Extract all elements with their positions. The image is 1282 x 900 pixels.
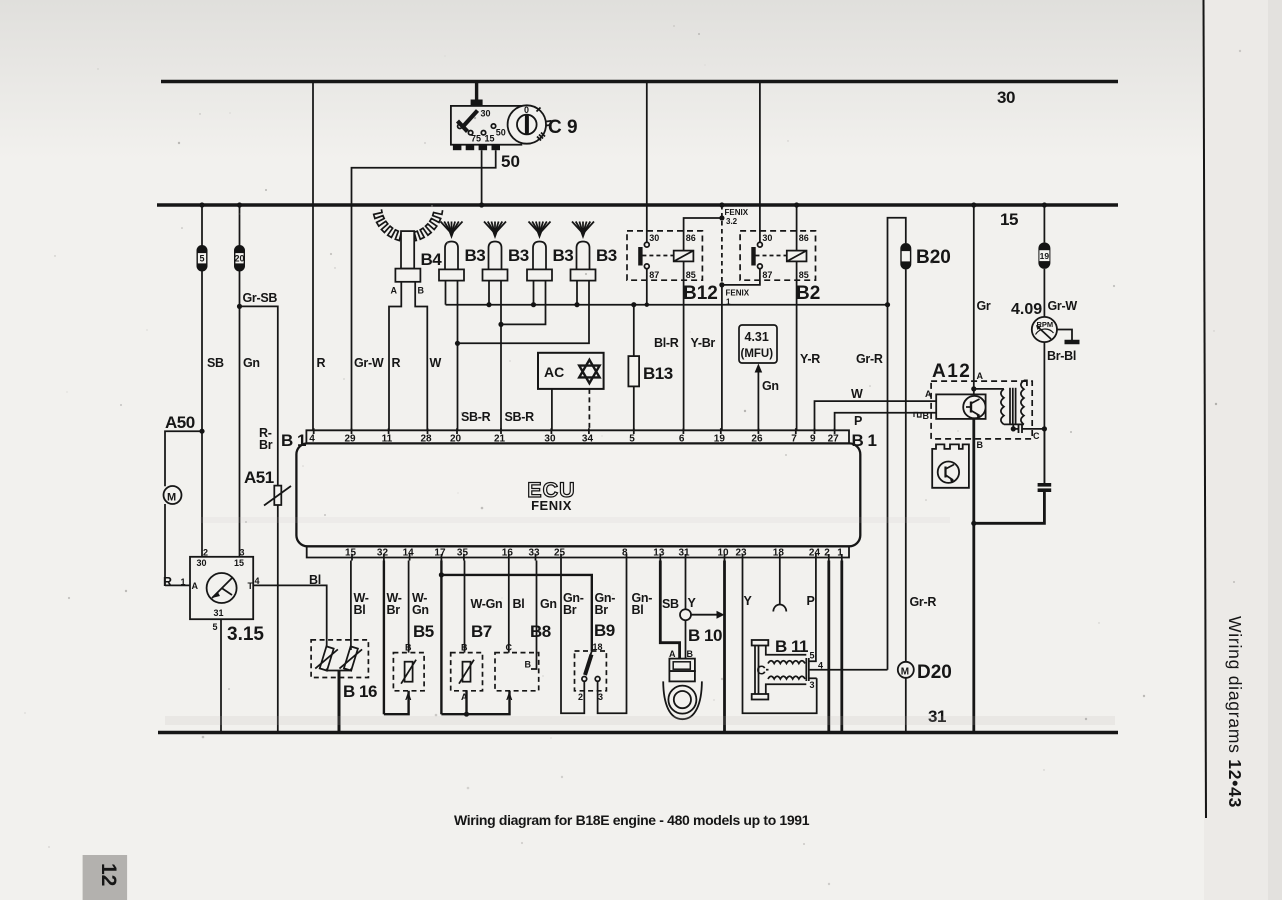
wire W: pin 9 to A12-A bbox=[815, 387, 937, 430]
A12 terminal B output (thick) bbox=[971, 418, 983, 732]
wire R: bus30 to ECU pin 4 bbox=[313, 82, 326, 431]
temp sensor B5 bbox=[384, 561, 434, 715]
idle/rpm sensor B4 bbox=[354, 231, 442, 430]
svg-text:B: B bbox=[923, 411, 930, 421]
svg-text:C: C bbox=[757, 663, 767, 678]
ground for tachometer (Br-Bl) bbox=[1047, 330, 1080, 364]
svg-text:B: B bbox=[418, 286, 425, 296]
wire B12-87 to injector rail bbox=[645, 269, 649, 307]
svg-text:Gr-W: Gr-W bbox=[354, 356, 384, 370]
svg-text:R: R bbox=[317, 356, 326, 370]
svg-text:18: 18 bbox=[773, 548, 785, 559]
resistor B13 bbox=[628, 305, 678, 431]
A12 capacitor and terminal C bbox=[1013, 425, 1044, 441]
air temp sensor B7 bbox=[451, 561, 503, 715]
ground wire pin 10 bbox=[723, 561, 726, 733]
svg-text:B20: B20 bbox=[916, 247, 951, 268]
distributor bbox=[932, 444, 969, 487]
throttle potentiometer B8 bbox=[495, 561, 557, 703]
pin 18 stub connector bbox=[773, 561, 786, 612]
svg-text:4: 4 bbox=[309, 434, 315, 445]
svg-text:R: R bbox=[163, 575, 172, 589]
svg-text:FENIX: FENIX bbox=[725, 208, 749, 217]
injector B3 #3 bbox=[527, 222, 573, 305]
svg-text:A: A bbox=[506, 692, 513, 702]
svg-text:26: 26 bbox=[751, 434, 763, 445]
fuse 19 line from bus15 bbox=[1011, 202, 1077, 318]
svg-text:14: 14 bbox=[403, 548, 415, 559]
lambda sensor B10 bbox=[660, 561, 724, 720]
wire Gr-SB branch to A51 bbox=[237, 291, 278, 733]
svg-text:B 1: B 1 bbox=[281, 431, 306, 450]
svg-text:3: 3 bbox=[598, 692, 603, 702]
svg-text:7: 7 bbox=[791, 434, 797, 445]
fuse B20 bbox=[900, 243, 951, 270]
wire B2-86 coil to bus15 bbox=[794, 202, 799, 250]
svg-text:B3: B3 bbox=[465, 246, 486, 265]
svg-text:B12: B12 bbox=[683, 283, 718, 304]
svg-text:Gr: Gr bbox=[977, 299, 991, 313]
wire: bus30 feed to C9 bbox=[471, 82, 483, 107]
svg-text:34: 34 bbox=[582, 434, 594, 445]
svg-text:25: 25 bbox=[554, 548, 566, 559]
svg-text:2: 2 bbox=[578, 692, 583, 702]
ignition switch C9 bbox=[451, 105, 578, 150]
svg-text:Br: Br bbox=[563, 603, 577, 617]
svg-text:30: 30 bbox=[997, 88, 1015, 107]
svg-text:B: B bbox=[687, 649, 694, 659]
svg-text:B3: B3 bbox=[596, 246, 617, 265]
svg-text:FENIX: FENIX bbox=[531, 498, 572, 513]
bus 31 bbox=[158, 707, 1118, 733]
svg-text:W: W bbox=[851, 387, 863, 401]
svg-text:30: 30 bbox=[762, 233, 772, 243]
svg-text:B 1: B 1 bbox=[852, 431, 877, 450]
svg-text:50: 50 bbox=[501, 152, 520, 171]
chapter tab 12 bbox=[83, 855, 128, 900]
svg-text:Bl: Bl bbox=[632, 603, 644, 617]
svg-text:5: 5 bbox=[810, 651, 815, 661]
svg-text:Gn: Gn bbox=[412, 603, 429, 617]
svg-text:86: 86 bbox=[799, 233, 809, 243]
injector B3 #4 bbox=[571, 222, 617, 305]
svg-text:9: 9 bbox=[810, 434, 816, 445]
wire: rail to B20/B11 feeder (Gr-R) bbox=[856, 218, 906, 670]
svg-text:A50: A50 bbox=[165, 413, 195, 432]
svg-text:23: 23 bbox=[736, 548, 748, 559]
suppression capacitor to ground bbox=[974, 429, 1051, 523]
wire bus30 to B12-30 bbox=[646, 82, 648, 243]
svg-text:Bl: Bl bbox=[309, 573, 321, 587]
ECU top pin row bbox=[309, 428, 839, 444]
svg-text:Br-Bl: Br-Bl bbox=[1047, 349, 1076, 363]
svg-text:30: 30 bbox=[197, 558, 207, 568]
bus 15 bbox=[157, 205, 1118, 229]
svg-text:B: B bbox=[525, 660, 532, 670]
svg-text:19: 19 bbox=[714, 434, 726, 445]
wire bus30 to B2-30 bbox=[759, 82, 761, 243]
wire B2-85 coil to ECU pin 7 (Y-R) bbox=[797, 261, 821, 430]
ECU bottom pin row bbox=[345, 548, 843, 561]
bus 30 bbox=[161, 82, 1118, 108]
svg-text:Y: Y bbox=[744, 594, 753, 608]
wire P: pin 27 to A12-B bbox=[835, 411, 937, 430]
svg-text:A: A bbox=[925, 389, 932, 399]
svg-text:B 10: B 10 bbox=[688, 626, 722, 645]
svg-text:B3: B3 bbox=[553, 246, 574, 265]
svg-text:3: 3 bbox=[810, 680, 815, 690]
relay B2 (fuel pump relay) bbox=[740, 231, 820, 304]
svg-text:Gr-R: Gr-R bbox=[910, 595, 937, 609]
wire B2-87 to FENIX 1 tap bbox=[722, 269, 760, 285]
svg-text:Y-Br: Y-Br bbox=[691, 336, 716, 350]
svg-text:5: 5 bbox=[213, 622, 218, 632]
wire: injector1+4 group to pin 20 bbox=[455, 305, 589, 431]
svg-text:A: A bbox=[461, 692, 468, 702]
svg-text:20: 20 bbox=[234, 254, 244, 264]
svg-text:15: 15 bbox=[485, 134, 495, 144]
idle air valve B11 bbox=[752, 637, 888, 700]
svg-text:87: 87 bbox=[762, 270, 772, 280]
fuel pump motor D20 bbox=[898, 662, 952, 733]
relay B12 (main/injection relay) bbox=[627, 231, 718, 304]
svg-text:B13: B13 bbox=[643, 364, 673, 383]
sensor A51 (resistance wire) bbox=[244, 468, 291, 506]
wire: injector2+3 group to pin 21 bbox=[498, 305, 545, 431]
svg-text:FENIX: FENIX bbox=[726, 289, 750, 298]
svg-text:1: 1 bbox=[181, 577, 186, 587]
svg-text:30: 30 bbox=[544, 434, 556, 445]
svg-text:10: 10 bbox=[718, 548, 730, 559]
svg-text:Gn: Gn bbox=[540, 597, 557, 611]
svg-text:8: 8 bbox=[622, 548, 628, 559]
svg-text:85: 85 bbox=[799, 270, 809, 280]
svg-text:24: 24 bbox=[809, 548, 821, 559]
coolant temp sensors B16 (dashed box, two thermistors) bbox=[311, 561, 377, 733]
svg-text:Gn: Gn bbox=[243, 356, 260, 370]
svg-text:4.09: 4.09 bbox=[1011, 301, 1042, 318]
svg-text:15: 15 bbox=[345, 548, 357, 559]
svg-text:W: W bbox=[430, 356, 442, 370]
svg-text:30: 30 bbox=[481, 109, 491, 119]
svg-text:C: C bbox=[506, 643, 513, 653]
wire Bl: 3.15 T to B16 bbox=[253, 573, 327, 649]
svg-text:Wiring diagrams 12•43: Wiring diagrams 12•43 bbox=[1225, 616, 1245, 808]
svg-text:B 16: B 16 bbox=[343, 682, 377, 701]
wire B12-86 coil to FENIX 3.2 tap bbox=[684, 215, 725, 250]
svg-text:87: 87 bbox=[649, 270, 659, 280]
svg-text:75: 75 bbox=[471, 134, 481, 144]
wire pin 23 to B11 terminal 3 (Y) bbox=[743, 561, 817, 714]
svg-text:3.15: 3.15 bbox=[227, 624, 264, 645]
svg-text:11: 11 bbox=[382, 434, 393, 445]
svg-text:B9: B9 bbox=[594, 621, 615, 640]
wire C9 terminal 15 to bus15 bbox=[479, 150, 484, 207]
svg-text:C: C bbox=[1033, 431, 1040, 441]
svg-text:5: 5 bbox=[199, 254, 204, 264]
svg-text:P: P bbox=[807, 594, 815, 608]
svg-text:(MFU): (MFU) bbox=[741, 348, 774, 360]
svg-text:SB-R: SB-R bbox=[461, 410, 491, 424]
svg-text:30: 30 bbox=[649, 233, 659, 243]
svg-text:28: 28 bbox=[421, 434, 433, 445]
ignition coil/power stage A12 bbox=[925, 361, 1032, 439]
page divider line bbox=[1204, 0, 1207, 818]
svg-text:P: P bbox=[854, 414, 862, 428]
svg-text:B3: B3 bbox=[508, 246, 529, 265]
svg-text:C 9: C 9 bbox=[548, 117, 578, 138]
svg-text:31: 31 bbox=[679, 548, 691, 559]
svg-text:D20: D20 bbox=[917, 662, 952, 683]
wire B12-85 coil to ECU pin 6 (Y-Br) bbox=[684, 261, 716, 430]
svg-text:SB: SB bbox=[662, 597, 679, 611]
svg-text:Y: Y bbox=[688, 596, 697, 610]
svg-text:Gr-SB: Gr-SB bbox=[243, 291, 278, 305]
svg-text:M: M bbox=[901, 667, 909, 678]
svg-text:1: 1 bbox=[726, 298, 731, 307]
svg-text:B2: B2 bbox=[796, 283, 820, 304]
ground rail from pin 17 bbox=[439, 561, 592, 717]
svg-text:31: 31 bbox=[214, 608, 224, 618]
svg-text:1: 1 bbox=[837, 548, 843, 559]
svg-text:Bl: Bl bbox=[513, 597, 525, 611]
svg-text:T: T bbox=[248, 581, 254, 591]
fuse 5 and SB wire bbox=[197, 202, 225, 556]
svg-text:16: 16 bbox=[502, 548, 514, 559]
injector B3 #2 bbox=[483, 222, 529, 305]
svg-text:SB: SB bbox=[207, 356, 224, 370]
AC compressor request box bbox=[538, 353, 604, 431]
svg-text:Gr-W: Gr-W bbox=[1048, 299, 1078, 313]
fuse 20 and Gn wire bbox=[234, 202, 260, 556]
svg-text:4.31: 4.31 bbox=[745, 330, 769, 344]
svg-text:AC: AC bbox=[544, 364, 564, 380]
svg-text:50: 50 bbox=[496, 128, 506, 138]
svg-text:15: 15 bbox=[234, 558, 244, 568]
injector supply rail bbox=[446, 302, 891, 307]
reference box 4.31 (MFU) bbox=[739, 325, 779, 430]
wire: gauge to coil terminal C junction bbox=[1042, 342, 1047, 483]
svg-text:A51: A51 bbox=[244, 468, 274, 487]
svg-text:3.2: 3.2 bbox=[726, 217, 738, 226]
svg-text:M: M bbox=[167, 492, 176, 504]
svg-text:86: 86 bbox=[686, 233, 696, 243]
svg-text:33: 33 bbox=[529, 548, 541, 559]
svg-text:Br: Br bbox=[259, 438, 273, 452]
injector B3 #1 bbox=[439, 222, 485, 305]
svg-text:4: 4 bbox=[818, 661, 823, 671]
svg-text:27: 27 bbox=[828, 434, 840, 445]
tachometer 4.09 (RPM gauge) bbox=[1032, 317, 1057, 342]
svg-text:3: 3 bbox=[240, 548, 245, 558]
wire pin 24 to B11 terminal 5 (P) bbox=[807, 561, 816, 662]
svg-text:B7: B7 bbox=[471, 622, 492, 641]
svg-text:12: 12 bbox=[97, 863, 120, 886]
svg-text:0: 0 bbox=[524, 105, 529, 115]
wire Gr: bus15 to A12-A bbox=[971, 202, 991, 394]
svg-text:20: 20 bbox=[450, 434, 462, 445]
svg-text:19: 19 bbox=[1040, 251, 1050, 261]
svg-text:Br: Br bbox=[387, 603, 401, 617]
svg-text:SB-R: SB-R bbox=[505, 410, 535, 424]
svg-text:A: A bbox=[192, 581, 199, 591]
svg-text:Gn: Gn bbox=[762, 379, 779, 393]
FENIX harness dashed link and pin 19 wire bbox=[719, 202, 749, 430]
svg-text:B: B bbox=[977, 440, 984, 450]
wire B20 to fuel pump D20 (Gr-R) bbox=[906, 270, 937, 662]
svg-text:B5: B5 bbox=[413, 622, 434, 641]
svg-text:Bl-R: Bl-R bbox=[654, 336, 679, 350]
svg-text:B: B bbox=[461, 643, 468, 653]
svg-text:A: A bbox=[405, 692, 412, 702]
svg-text:Wiring diagram for B18E engine: Wiring diagram for B18E engine - 480 mod… bbox=[454, 812, 810, 828]
svg-text:Br: Br bbox=[595, 603, 609, 617]
svg-text:5: 5 bbox=[629, 434, 635, 445]
ECU FENIX box bbox=[281, 430, 877, 557]
svg-text:21: 21 bbox=[494, 434, 506, 445]
svg-text:35: 35 bbox=[457, 548, 469, 559]
svg-text:2: 2 bbox=[203, 548, 208, 558]
svg-text:B 11: B 11 bbox=[775, 637, 808, 656]
svg-text:A: A bbox=[977, 371, 984, 381]
A50 branch with motor M bbox=[163, 413, 205, 589]
svg-text:A12: A12 bbox=[932, 361, 971, 382]
scan smudge bbox=[165, 716, 1115, 725]
A12 coil windings bbox=[971, 380, 1027, 431]
svg-text:85: 85 bbox=[686, 270, 696, 280]
svg-text:18: 18 bbox=[593, 642, 603, 652]
svg-text:6: 6 bbox=[679, 434, 685, 445]
svg-text:B: B bbox=[405, 643, 412, 653]
throttle switch B9 bbox=[561, 561, 652, 714]
svg-text:29: 29 bbox=[345, 434, 357, 445]
flywheel toothed ring bbox=[374, 209, 443, 241]
svg-text:32: 32 bbox=[377, 548, 389, 559]
svg-text:B4: B4 bbox=[421, 250, 443, 269]
svg-text:A: A bbox=[391, 286, 398, 296]
svg-text:4: 4 bbox=[255, 576, 260, 586]
svg-text:B8: B8 bbox=[530, 622, 551, 641]
svg-text:W-Gn: W-Gn bbox=[471, 597, 503, 611]
svg-text:R: R bbox=[392, 356, 401, 370]
svg-text:17: 17 bbox=[434, 548, 446, 559]
svg-text:Gr-R: Gr-R bbox=[856, 352, 883, 366]
svg-text:Y-R: Y-R bbox=[800, 352, 820, 366]
wire C9 terminal 50 to ECU pin 29 (Gr-W) bbox=[352, 150, 520, 430]
svg-text:2: 2 bbox=[824, 548, 830, 559]
svg-text:A: A bbox=[669, 649, 676, 659]
svg-text:15: 15 bbox=[1000, 210, 1018, 229]
instrument cluster 3.15 (gauge) bbox=[181, 548, 265, 733]
svg-text:Bl: Bl bbox=[354, 603, 366, 617]
ground wires pins 2 and 1 bbox=[829, 561, 842, 733]
